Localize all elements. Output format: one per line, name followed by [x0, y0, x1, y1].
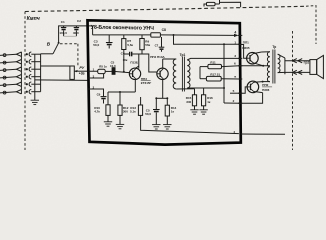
svg-text:ПП4 П13А: ПП4 П13А: [150, 55, 165, 59]
transistor T2: [157, 59, 168, 98]
svg-text:П306: П306: [262, 88, 269, 92]
svg-text:ПП2: ПП2: [262, 83, 268, 87]
resistor R17 horizontal: [206, 76, 221, 81]
dashed block boundary top horizontal: [25, 6, 306, 11]
bus vertical B: [40, 54, 42, 92]
svg-text:R17 51: R17 51: [210, 72, 220, 76]
wire pot wiper to box pin 1: [74, 70, 88, 72]
dashed corner top right: [306, 6, 316, 44]
capacitor C3: [93, 35, 112, 49]
Tr1 primary bottom wire: [176, 88, 194, 90]
svg-text:4: 4: [234, 30, 236, 34]
ground under C5e: [152, 125, 160, 129]
svg-text:Кмпч: Кмпч: [27, 16, 40, 22]
emitter junction wire: [156, 97, 167, 99]
capacitor C2: [73, 19, 81, 36]
svg-text:5,6к: 5,6к: [127, 43, 133, 47]
switch dot: [58, 42, 60, 44]
cropped top fragment wire: [204, 0, 241, 7]
connector terminal circles: [3, 54, 6, 94]
resistor R11 horizontal: [208, 64, 222, 68]
main block box border: [88, 20, 241, 144]
svg-text:1к: 1к: [171, 110, 175, 114]
wire pin3 L-shape: [88, 73, 103, 78]
resistor R10: [107, 92, 109, 105]
svg-text:С8: С8: [162, 28, 166, 32]
svg-text:У8-Блок оконечного УНЧ: У8-Блок оконечного УНЧ: [91, 25, 155, 32]
pot wiper arrow: [74, 70, 77, 72]
speaker connector arrows: [292, 59, 302, 75]
resistor R14: [166, 98, 168, 105]
svg-text:С7: С7: [155, 43, 159, 47]
resistor R9: [140, 39, 144, 50]
svg-text:Гр2: Гр2: [304, 61, 310, 65]
Tr2 primary top wire: [261, 51, 270, 53]
paper background: [0, 0, 326, 150]
svg-text:10,0: 10,0: [110, 64, 116, 68]
connector plug triangles on bar: [20, 52, 22, 94]
rail arrow to pin 4: [234, 34, 239, 37]
speaker wires: [285, 60, 310, 62]
wire into box to rail: [88, 26, 92, 35]
wire pin1 to PP1 base: [240, 45, 246, 59]
svg-text:Тр: Тр: [272, 45, 276, 49]
svg-text:РУ: РУ: [79, 66, 84, 70]
svg-text:С9: С9: [97, 92, 101, 96]
resistor R15: [194, 89, 196, 95]
svg-text:300: 300: [123, 110, 128, 114]
dashed mechanical linkage switch to pot: [60, 43, 78, 45]
resistor R12 vertical: [119, 92, 121, 105]
svg-text:С2: С2: [77, 19, 81, 23]
capacitor C6 on rail: [161, 37, 163, 47]
wire pin5 to PP2 base: [240, 87, 247, 93]
cropped top fragment resistor: [207, 2, 216, 5]
svg-text:С1: С1: [61, 20, 65, 24]
resistor R8 on rail: [151, 33, 161, 37]
svg-text:в: в: [234, 75, 236, 79]
Tr2 primary winding: [267, 52, 270, 82]
Tr1 primary winding: [173, 59, 176, 89]
capacitor C5e: [155, 98, 157, 109]
resistor R16: [203, 88, 205, 95]
svg-text:Тр1: Тр1: [180, 53, 186, 57]
Tr2 primary bottom wire: [263, 81, 270, 83]
transistor PP2: [247, 81, 263, 93]
resistor R7: [122, 39, 126, 50]
bottom common wire: [241, 133, 285, 135]
Tr2 core: [272, 50, 274, 84]
rail drop to pin1 wire: [173, 34, 175, 36]
bus vertical A: [34, 54, 36, 100]
svg-text:40,0: 40,0: [73, 31, 79, 35]
Tr2 secondary winding: [278, 54, 280, 72]
PP2 emitter to pin 2 wire: [240, 93, 262, 104]
wire T2 collector to transformer: [163, 58, 177, 60]
Tr1 secondary bottom wire: [187, 87, 224, 89]
ground under bus: [31, 100, 39, 104]
transistor PP1: [247, 52, 264, 66]
input network: resistor R5 on pin1 wire: [88, 70, 98, 72]
potentiometer RU: [70, 66, 74, 79]
connector socket dots: [26, 53, 28, 93]
svg-text:5,1к: 5,1к: [130, 110, 136, 114]
svg-text:10к: 10к: [123, 58, 128, 62]
wire switch up to cap rail: [59, 26, 89, 42]
connector socket arcs: [29, 52, 31, 94]
capacitor C5 input: [105, 70, 112, 72]
capacitor C1: [59, 20, 67, 36]
wire bus to switch: [41, 53, 53, 55]
wire joining cap bottoms: [64, 35, 77, 37]
pin ticks crossing right edge: [238, 35, 242, 103]
center tap wire pin 6 to Tr2: [240, 65, 270, 67]
Tr1 secondary winding: [187, 60, 190, 88]
Tr1 secondary top wire to pin 3: [187, 58, 239, 60]
svg-text:4,7к: 4,7к: [94, 110, 100, 114]
divider vertical: [199, 67, 201, 79]
emitter wire T1 to R10: [108, 91, 135, 93]
transistor T1: [129, 66, 140, 92]
wire pot bottom to box pin 3: [71, 78, 73, 81]
svg-text:R5 1к: R5 1к: [99, 65, 107, 69]
svg-text:56к: 56к: [145, 43, 150, 47]
resistor R13 vertical: [140, 97, 142, 105]
svg-text:КТ315Г: КТ315Г: [141, 81, 152, 85]
R13 bottom to bus: [141, 115, 239, 133]
pin 5 stub: [230, 92, 240, 94]
ladder rung wires: [31, 54, 40, 91]
svg-text:100,0: 100,0: [59, 31, 67, 35]
wire bus to pot top: [41, 65, 70, 67]
svg-text:1к: 1к: [207, 100, 211, 104]
supply rail: [93, 34, 151, 36]
T1 collector wire: [138, 54, 140, 69]
svg-text:50,0: 50,0: [145, 112, 151, 116]
svg-text:+3в: +3в: [79, 71, 85, 75]
connector wires with terminal circles: [0, 54, 16, 93]
dashed block boundary right vertical: [292, 31, 294, 150]
Tr1 core: [181, 57, 183, 92]
svg-text:R11: R11: [210, 61, 216, 65]
Tr2 secondary connections: [278, 54, 285, 58]
svg-text:340: 340: [186, 100, 191, 104]
svg-text:П13Б: П13Б: [130, 61, 138, 65]
svg-text:50,0: 50,0: [93, 43, 99, 47]
long vertical to pin 2: [223, 44, 225, 103]
dashed block boundary left vertical: [24, 12, 26, 151]
bus wire to pin3 row: [35, 79, 88, 82]
ground under R10: [104, 122, 112, 126]
pin2 wire and capacitor C9: [88, 89, 103, 96]
R12 ground: [119, 115, 121, 124]
ground under R14: [163, 125, 171, 129]
wire C4 node to T2 base: [142, 54, 157, 72]
switch V blade: [53, 44, 58, 54]
